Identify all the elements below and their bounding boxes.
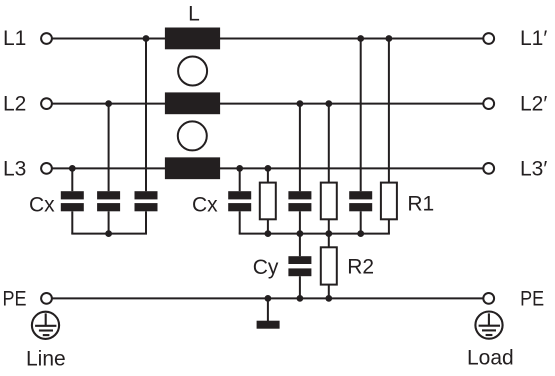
wire PE to chassis ground — [267, 298, 269, 321]
node bus/Cy — [297, 230, 304, 237]
wire L1 to Cx6 — [360, 39, 362, 192]
wire R2 to PE — [328, 285, 330, 299]
inductor L core circle 1 — [178, 57, 207, 86]
svg-text:Cx: Cx — [29, 194, 55, 217]
node L3/Cx4 — [236, 165, 243, 172]
earth symbol left — [32, 312, 59, 339]
node L3/R1a — [265, 165, 272, 172]
resistor R2 — [321, 247, 337, 284]
wire L2 to R1b — [328, 104, 330, 183]
resistor R1b — [321, 183, 337, 220]
wire L1 to R1c — [388, 39, 390, 183]
svg-text:Cy: Cy — [253, 256, 279, 279]
svg-text:R2: R2 — [347, 256, 374, 279]
svg-text:L3′: L3′ — [520, 158, 547, 181]
terminal L1' right — [483, 33, 494, 44]
svg-text:L: L — [188, 3, 200, 26]
wire R1b bottom — [328, 219, 330, 233]
terminal L2 left — [41, 98, 52, 109]
svg-text:L1′: L1′ — [520, 27, 547, 50]
chassis ground — [257, 321, 280, 329]
wire L1 — [52, 38, 483, 40]
inductor L core circle 2 — [178, 121, 207, 150]
svg-text:L2′: L2′ — [520, 93, 547, 116]
wire R1c bottom — [388, 219, 390, 233]
wire L3 to R1a — [267, 168, 269, 182]
node bus/Cx6 — [357, 230, 364, 237]
resistor R1a — [260, 183, 276, 220]
capacitor Cx5 — [288, 191, 311, 211]
inductor L winding 2 — [165, 92, 220, 114]
svg-text:R1: R1 — [407, 193, 434, 216]
node L2/R1b — [325, 100, 332, 107]
wire L3 to Cx4 — [239, 168, 241, 191]
terminal L2' right — [483, 98, 494, 109]
wire Cx5 bottom — [299, 211, 301, 233]
resistor R1c — [381, 183, 397, 220]
capacitor Cx6 — [349, 191, 372, 211]
wire Cx3 bottom — [145, 211, 147, 233]
wire L2 to Cx2 left — [108, 104, 110, 192]
svg-text:L2: L2 — [3, 93, 26, 116]
wire star point left — [71, 233, 147, 235]
capacitor Cx2 left — [97, 191, 120, 211]
svg-text:Cx: Cx — [192, 194, 218, 217]
inductor L winding 1 — [165, 28, 220, 50]
svg-text:PE: PE — [3, 288, 27, 311]
terminal PE left — [41, 293, 52, 304]
wire Cy to PE — [299, 276, 301, 298]
svg-text:L3: L3 — [3, 158, 26, 181]
node L1/R1c — [386, 35, 393, 42]
earth symbol right — [475, 312, 502, 339]
wire PE — [52, 297, 483, 299]
wire Cx6 bottom — [360, 211, 362, 233]
node L2/Cx2 — [105, 100, 112, 107]
wire L3 — [52, 167, 483, 169]
wire Cx2 bottom — [108, 211, 110, 233]
wire star bus right — [239, 233, 390, 235]
svg-text:L1: L1 — [3, 27, 26, 50]
capacitor Cy — [288, 256, 311, 276]
node bus/R1a — [265, 230, 272, 237]
wire L2 — [52, 103, 483, 105]
node bus/R2 — [325, 230, 332, 237]
terminal PE right — [483, 293, 494, 304]
node PE/R2 — [325, 295, 332, 302]
terminal L3' right — [483, 163, 494, 174]
capacitor Cx3 left — [135, 191, 158, 211]
svg-text:PE: PE — [520, 288, 544, 311]
wire L2 to Cx5 — [299, 104, 301, 192]
node PE/ground — [265, 295, 272, 302]
wire Cx1 bottom — [71, 211, 73, 233]
wire L1 to Cx3 left — [145, 39, 147, 192]
wire Cx4 bottom — [239, 211, 241, 233]
svg-text:Load: Load — [467, 347, 514, 370]
node L3/Cx1 — [69, 165, 76, 172]
wire bus to Cy — [299, 234, 301, 257]
capacitor Cx4 — [228, 191, 251, 211]
capacitor Cx1 left — [61, 191, 84, 211]
node L1/Cx3 — [143, 35, 150, 42]
node L2/Cx5 — [297, 100, 304, 107]
terminal L1 left — [41, 33, 52, 44]
node star point left — [105, 230, 112, 237]
wire bus to R2 — [328, 234, 330, 248]
node L1/Cx6 — [357, 35, 364, 42]
terminal L3 left — [41, 163, 52, 174]
node PE/Cy — [297, 295, 304, 302]
wire R1a bottom — [267, 219, 269, 233]
svg-text:Line: Line — [26, 348, 66, 371]
inductor L winding 3 — [165, 157, 220, 179]
wire L3 to Cx1 left — [71, 168, 73, 191]
